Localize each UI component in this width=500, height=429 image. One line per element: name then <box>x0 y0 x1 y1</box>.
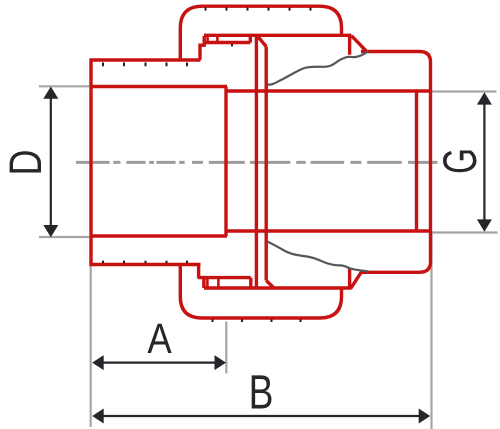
left socket bore top line <box>91 85 227 88</box>
insert face vertical B <box>265 47 268 281</box>
right body top edge <box>361 52 431 163</box>
right body bore bottom line <box>227 229 431 232</box>
nut relief box verticals bottom <box>207 277 218 289</box>
centerline <box>76 161 438 164</box>
serration ticks under nut bottom edge <box>213 319 301 322</box>
dimension A arrow left <box>92 355 104 370</box>
nut relief box verticals top <box>208 36 218 43</box>
left socket left edge <box>89 59 92 267</box>
union nut upper outline <box>180 6 341 60</box>
nut inner line2 bottom <box>198 276 251 279</box>
dimension D arrow down <box>43 225 58 237</box>
dimension G arrow up <box>477 92 492 104</box>
insert face vertical A <box>255 35 258 288</box>
insert chamfer top <box>257 36 266 47</box>
dimension B arrow right <box>419 409 431 424</box>
svg-text:A: A <box>147 315 172 362</box>
right body bore top line <box>227 89 431 92</box>
left socket inner end face <box>224 87 227 237</box>
break wavy line top <box>268 51 369 85</box>
serration ticks under nut top edge <box>206 8 311 11</box>
left socket step vertical bottom <box>199 265 204 288</box>
G bottom extension line <box>431 231 498 233</box>
A/B left extension line <box>90 266 92 427</box>
dimension B line <box>100 415 422 417</box>
dimension A arrow right <box>215 355 227 370</box>
D top extension line <box>39 85 89 87</box>
right body bottom edge <box>361 162 431 272</box>
insert chamfer bottom <box>266 281 274 289</box>
thread tick under nut line2 top <box>231 44 233 46</box>
right body break edge top <box>350 35 366 55</box>
serration ticks above socket bottom edge <box>103 261 187 264</box>
svg-text:B: B <box>249 366 274 420</box>
nut inner line2 top <box>204 41 250 44</box>
left socket bottom edge <box>90 263 201 266</box>
dimension G arrow down <box>477 219 492 231</box>
dimension D line <box>50 95 52 229</box>
union nut lower outline <box>180 265 341 318</box>
dimension D arrow up <box>43 87 58 99</box>
svg-text:D: D <box>0 150 51 176</box>
nut inner line1 top <box>204 34 352 37</box>
right body inner face <box>415 91 418 231</box>
nut line2 end connector top <box>249 36 252 43</box>
svg-text:G: G <box>433 148 486 174</box>
dimension G line <box>483 102 485 222</box>
left socket bore bottom line <box>91 234 227 237</box>
nut line2 end connector bottom <box>249 278 252 288</box>
dimension B arrow left <box>92 409 104 424</box>
dimension A line <box>100 362 218 364</box>
serration ticks under socket top edge <box>103 63 187 67</box>
left socket step vertical top <box>200 36 204 60</box>
break wavy line bottom <box>267 242 369 272</box>
right body break edge bottom <box>350 268 362 288</box>
B right extension line <box>430 233 432 429</box>
D bottom extension line <box>39 236 89 238</box>
left socket top edge <box>90 58 201 61</box>
G top extension line <box>431 90 497 92</box>
nut inner line1 bottom <box>204 286 352 289</box>
A right extension line <box>225 322 227 374</box>
